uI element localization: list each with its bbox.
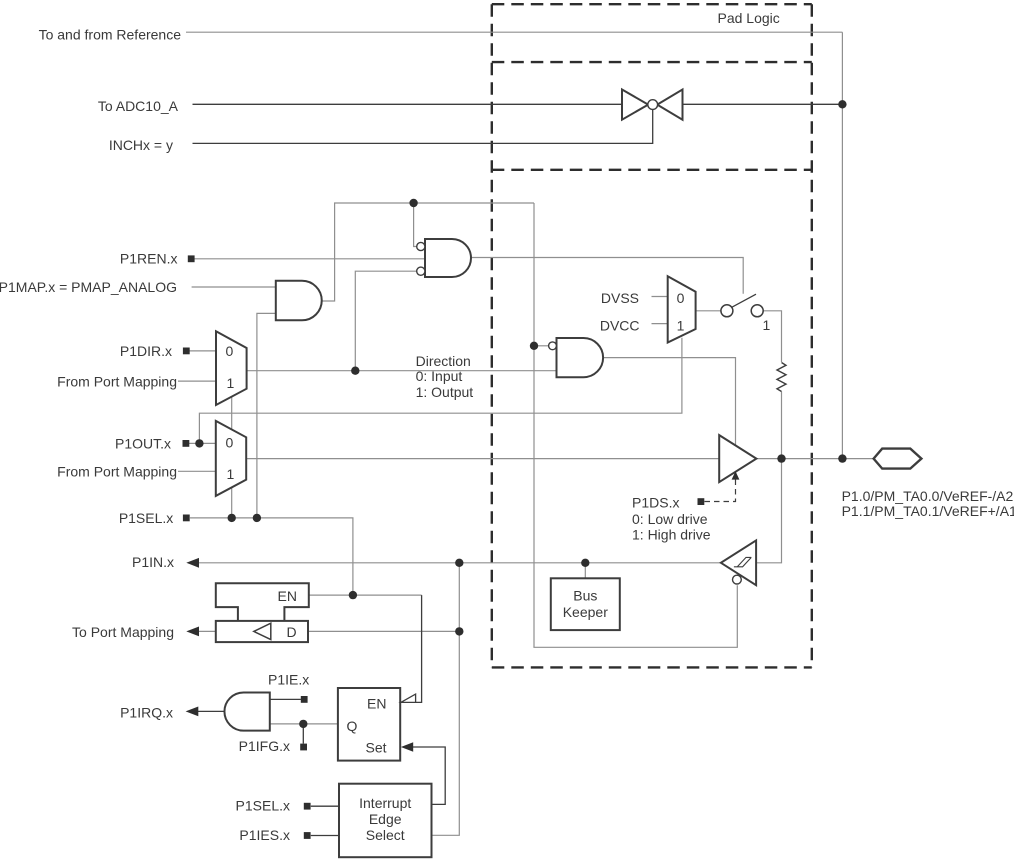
svg-text:P1IN.x: P1IN.x [132,554,174,570]
Pad Logic dashed enclosure right edge [811,4,813,667]
svg-text:P1REN.x: P1REN.x [120,251,178,267]
wire: D latch data line to edge-select vertical [308,630,459,632]
svg-text:To and from Reference: To and from Reference [39,27,182,43]
wire: To and from Reference net [186,31,842,33]
Schmitt trigger input buffer U6 [721,540,756,585]
arrow to P1IN.x [186,558,199,568]
direction NAND gate U4 body [557,338,604,377]
wire: P1IFG.x stub [302,724,304,744]
wire: switch to pull resistor top [763,311,781,362]
wire: P1SEL.x stub to Interrupt Edge Select [311,805,339,807]
wire: P1OUT branch up and over to DVSS/DVCC mux select [199,338,682,444]
mux M1 P1DIR/From Port Mapping [216,331,247,405]
wire: P1SEL select vertical to both muxes [231,397,233,518]
wire: REN gate output to pull resistor switch control [471,258,743,294]
wire: IRQ AND gate output to P1IRQ.x arrow [196,710,225,712]
wire: direction branch to REN gate lower bubble [355,271,416,371]
svg-text:P1DS.x: P1DS.x [632,495,679,511]
svg-text:To ADC10_A: To ADC10_A [98,98,179,114]
Pad Logic dashed enclosure left edge [491,4,493,667]
output driver buffer U5 [719,435,756,482]
wire: INCHx = y control of analog switch [193,110,653,144]
svg-text:P1.0/PM_TA0.0/VeREF-/A2: P1.0/PM_TA0.0/VeREF-/A2 [842,488,1014,504]
svg-text:Set: Set [365,740,386,756]
svg-text:0: 0 [226,343,234,359]
wire: long vertical input-path enable net [533,203,535,647]
Schmitt trigger hysteresis glyph [734,557,751,566]
port mapping latch D box [216,621,308,642]
register bit square P1IE.x [301,696,308,703]
svg-text:Edge: Edge [369,811,402,827]
svg-text:From Port Mapping: From Port Mapping [57,463,177,479]
P1DS.x dashed control line [705,479,736,502]
svg-text:Select: Select [366,827,405,843]
arrow To Port Mapping [186,627,199,637]
svg-text:Q: Q [347,718,358,734]
node A junction on enable net top [409,199,417,207]
Pad Logic dashed enclosure top edge [492,3,812,5]
Pad Logic dashed divider below analog switch row [492,169,812,171]
svg-text:1: 1 [227,466,235,482]
register bit square P1SEL.x [183,515,190,522]
junction direction net branch [351,367,359,375]
wire: DVCC stub into mux [652,323,668,325]
wire: analog AND gate output up and over [322,203,534,301]
wire: pad net vertical to pin [841,32,843,458]
register bit square P1DIR.x [183,348,190,355]
wire: P1OUT.x to OUT mux input 0 [189,442,216,444]
latch clock triangle [254,623,271,639]
pull-up switch lever [732,294,756,307]
wire: From Port Mapping to OUT mux input 1 [178,470,216,472]
svg-text:0: 0 [226,435,234,451]
wire: To Port Mapping from D latch [196,630,216,632]
junction pad net / output line [838,454,846,462]
analog switch U1 right triangle [657,90,682,120]
wire: P1IE.x stub to IRQ AND gate [270,698,301,700]
svg-text:EN: EN [278,588,297,604]
wire: pad net down to Schmitt input [756,459,781,563]
wire: P1IN.x net [193,562,721,564]
svg-text:0: Input: 0: Input [416,368,463,384]
junction Q line to P1IFG stub [299,720,307,728]
junction D line to edge select vertical [455,627,463,635]
junction P1SEL to mux selects [228,514,236,522]
svg-text:DVCC: DVCC [600,317,640,333]
analog switch U1 left triangle [622,90,648,120]
wire: P1MAP.x = PMAP_ANALOG input to AND gate [192,286,276,288]
wire: P1IES.x stub to Interrupt Edge Select [311,835,339,837]
svg-text:P1IRQ.x: P1IRQ.x [120,705,173,721]
register bit square P1IFG.x [300,744,307,751]
Interrupt Edge Select block [339,784,432,858]
wire: branch from node A down to REN gate upper bubble [414,203,417,247]
svg-text:EN: EN [367,696,386,712]
pull-up switch contact circle right [751,305,763,317]
svg-text:1: High drive: 1: High drive [632,527,711,543]
pull resistor R1 zigzag [777,363,786,392]
svg-text:To Port Mapping: To Port Mapping [72,624,174,640]
svg-text:P1SEL.x: P1SEL.x [236,798,290,814]
junction pad net / ADC line [838,100,846,108]
junction resistor to output line [777,454,785,462]
wire: P1IN branch down to Interrupt Edge Select [432,563,460,836]
junction enable net to NAND bubble [530,342,538,350]
wire: bus keeper stub [584,563,586,579]
wire: EN latch enable line [309,594,422,596]
wire: DVSS stub into mux [652,296,668,298]
svg-text:P1.1/PM_TA0.1/VeREF+/A1: P1.1/PM_TA0.1/VeREF+/A1 [842,503,1014,519]
REN gate U3 upper input bubble [417,242,425,250]
pin symbol hexagon [874,449,922,469]
svg-text:DVSS: DVSS [601,290,639,306]
svg-text:P1SEL.x: P1SEL.x [119,510,173,526]
svg-text:D: D [287,624,297,640]
pull-up switch contact circle left [721,305,733,317]
wire: direction NAND output to driver enable [603,358,735,446]
svg-text:Direction: Direction [416,353,471,369]
svg-text:1: 1 [227,375,235,391]
Schmitt trigger enable bubble [733,575,742,584]
svg-text:0: 0 [677,290,685,306]
svg-text:P1OUT.x: P1OUT.x [115,435,171,451]
Bus Keeper block [551,578,620,630]
junction P1IN to bus keeper [581,559,589,567]
register bit square P1REN.x [188,255,195,262]
wire: Direction net from DIR mux to NAND gate [247,370,557,372]
wire: analog switch to pad net [683,103,843,105]
svg-text:From Port Mapping: From Port Mapping [57,373,177,389]
wire: P1SEL.x branch up to analog AND gate input [257,313,276,518]
svg-text:1: 1 [763,317,771,333]
svg-text:Pad Logic: Pad Logic [718,10,780,26]
arrow to P1IRQ.x [186,707,199,717]
svg-text:Interrupt: Interrupt [359,795,411,811]
junction P1SEL to analog AND [253,514,261,522]
svg-text:1: Output: 1: Output [416,384,474,400]
wire: driver output to pad pin [756,458,873,460]
junction P1OUT branch [195,439,203,447]
svg-text:P1MAP.x = PMAP_ANALOG: P1MAP.x = PMAP_ANALOG [0,279,177,295]
register bit square P1IES.x [304,832,311,839]
direction NAND gate U4 input bubble [549,342,557,350]
wire: Interrupt Edge Select output to flag Set input [411,747,446,804]
wire: To ADC10_A line [193,103,623,105]
wire: P1SEL.x line [190,518,353,595]
junction P1SEL to EN latch line [349,591,357,599]
interrupt flag EN edge-trigger triangle [401,694,416,702]
wire: NAND output junction to bubble [534,345,549,347]
register bit square P1SEL.x lower [304,803,311,810]
wire: DVSS/DVCC mux output to switch contact [696,310,721,312]
AND gate U2 (PMAP_ANALOG and P1SEL) [276,281,322,321]
register bit square P1DS.x [698,498,705,505]
register bit square P1OUT.x [183,440,190,447]
svg-text:Keeper: Keeper [563,604,608,620]
svg-text:INCHx = y: INCHx = y [109,137,173,153]
arrow into flag Set input [401,742,413,751]
Pad Logic dashed enclosure bottom edge [492,666,812,668]
analog switch U1 gate circle [648,100,658,110]
svg-text:0: Low drive: 0: Low drive [632,511,708,527]
svg-text:1: 1 [677,317,685,333]
interrupt flag register box [338,688,400,761]
svg-text:Bus: Bus [573,588,597,604]
Pad Logic dashed divider below reference row [492,61,812,63]
IRQ AND gate U7 (mirrored) [224,693,269,731]
wire: P1REN.x input to REN gate [195,258,426,260]
wire: enable net across to Schmitt bubble [533,585,737,647]
arrow P1DS control into driver [732,471,740,479]
wire: P1DIR.x to mux input 0 [190,350,217,352]
mux M2 P1OUT/From Port Mapping [216,421,246,496]
REN gate U3 lower input bubble [417,267,425,275]
wire: From Port Mapping to DIR mux input 1 [178,380,216,382]
svg-text:P1DIR.x: P1DIR.x [120,343,172,359]
svg-text:P1IE.x: P1IE.x [268,671,309,687]
NOR-style REN gate U3 body [425,239,471,277]
port mapping latch EN box [216,583,309,621]
wire: interrupt flag Q output to IRQ AND gate [270,723,338,725]
wire: pull resistor bottom lead to pad net [781,392,783,459]
junction P1IN to edge select vertical [455,559,463,567]
wire: EN latch line down to interrupt flag EN clock input [400,595,421,702]
svg-text:P1IES.x: P1IES.x [239,827,290,843]
wire: output data net from OUT mux to driver [247,458,720,460]
svg-text:P1IFG.x: P1IFG.x [239,738,290,754]
mux M3 DVSS/DVCC [668,276,696,342]
